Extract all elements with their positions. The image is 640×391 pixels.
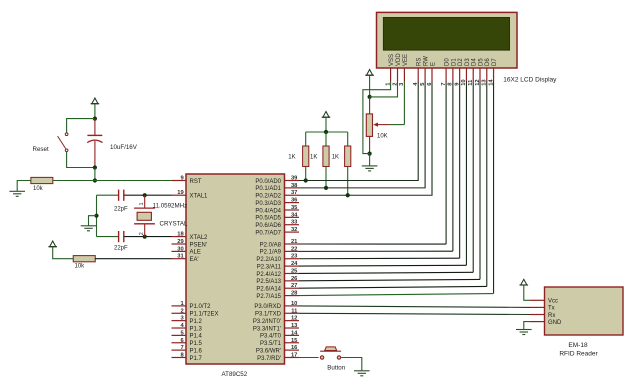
svg-text:P0.3/AD3: P0.3/AD3 [255, 201, 281, 207]
svg-text:P3.0/RXD: P3.0/RXD [254, 304, 281, 310]
power symbol VCC (EA) [48, 241, 57, 247]
wire VCC to pot node [369, 76, 371, 97]
svg-text:15: 15 [291, 338, 298, 344]
wire R2 to P0.0 row [305, 167, 307, 181]
svg-text:35: 35 [291, 205, 298, 211]
junction pot bottom node [368, 152, 372, 156]
svg-text:P2.5/A13: P2.5/A13 [256, 279, 281, 285]
svg-text:P1.1/T2EX: P1.1/T2EX [190, 312, 219, 318]
capacitor C1 22pF [119, 190, 124, 201]
U1 right pin P3.3/INT1' (pin 13) stub [285, 327, 300, 329]
svg-text:10K: 10K [377, 133, 388, 139]
resistor R2 1K [303, 146, 309, 167]
svg-text:RST: RST [190, 179, 202, 185]
svg-text:P3.5/T1: P3.5/T1 [260, 341, 282, 347]
U1 left pin EA' (pin 31) stub [172, 258, 187, 260]
wire LCD D3 vertical [465, 81, 467, 265]
wire R3 to P0.1 row [325, 167, 327, 188]
junction RST node [93, 178, 97, 182]
wire ground to R1 [17, 181, 31, 192]
svg-text:P2.2/A10: P2.2/A10 [256, 257, 281, 263]
svg-text:PSEN': PSEN' [190, 242, 207, 248]
svg-text:22pF: 22pF [114, 207, 128, 213]
wire cap bottom to RST row [94, 168, 96, 181]
wire LCD RW to P0.1 [299, 81, 425, 188]
svg-text:39: 39 [291, 176, 298, 182]
svg-text:16X2 LCD Display: 16X2 LCD Display [503, 77, 557, 84]
svg-text:12: 12 [291, 316, 297, 322]
wire C2 to XTAL2 pin [124, 236, 171, 238]
svg-text:GND: GND [548, 320, 562, 326]
svg-text:Tx: Tx [548, 306, 555, 312]
LCD display LCD1 body [377, 12, 518, 68]
svg-text:P0.4/AD4: P0.4/AD4 [255, 208, 281, 214]
wire LCD E to P0.2 [299, 81, 432, 195]
svg-text:P0.0/AD0: P0.0/AD0 [255, 179, 281, 185]
wire LCD VDD to VCC node [370, 81, 398, 97]
svg-text:VSS: VSS [389, 54, 395, 66]
svg-text:VEE: VEE [403, 54, 409, 66]
wire VCC to reset node [94, 104, 96, 119]
LCD1 pin 7 (D0) stub [445, 68, 447, 81]
wire switch bottom to cap bottom node [67, 152, 95, 168]
svg-text:24: 24 [291, 261, 298, 267]
svg-text:D2: D2 [458, 58, 464, 66]
wire LCD D0 vertical [445, 81, 447, 244]
junction reset top node [93, 117, 97, 121]
svg-text:RW: RW [424, 56, 430, 66]
wire LCD VEE to pot wiper [403, 81, 405, 125]
wire P3.0/RXD to EM-18 Tx [299, 306, 530, 308]
wire P3.7 to button [299, 356, 319, 358]
wire LCD D6 to P2.6 [299, 286, 487, 288]
svg-text:D3: D3 [465, 58, 471, 66]
svg-text:EM-18: EM-18 [568, 342, 588, 349]
svg-text:P2.0/A8: P2.0/A8 [260, 242, 282, 248]
svg-text:1: 1 [139, 203, 145, 206]
svg-text:29: 29 [177, 239, 184, 245]
svg-text:37: 37 [291, 190, 297, 196]
svg-text:P1.2: P1.2 [190, 319, 203, 325]
wire reset node to switch top [67, 119, 95, 133]
U1 right pin P2.1/A9 (pin 22) stub [285, 250, 300, 252]
U1 left pin P1.0/T2 (pin 1) stub [172, 305, 187, 307]
resistor R1 10k (reset pulldown) [31, 177, 53, 183]
svg-text:P3.3/INT1': P3.3/INT1' [253, 326, 281, 332]
svg-text:10k: 10k [33, 186, 44, 192]
svg-text:14: 14 [291, 330, 298, 336]
svg-text:D6: D6 [485, 58, 491, 66]
svg-text:D1: D1 [451, 58, 457, 66]
svg-text:VDD: VDD [396, 53, 402, 66]
svg-text:18: 18 [177, 232, 184, 238]
U2 pin Rx stub [530, 314, 545, 316]
svg-text:28: 28 [291, 291, 298, 297]
svg-text:P3.7/RD': P3.7/RD' [257, 356, 281, 362]
ground (reset) [9, 191, 25, 196]
LCD1 pin 14 (D7) stub [493, 68, 495, 81]
U1 right pin P2.0/A8 (pin 21) stub [285, 243, 300, 245]
LCD1 pin 11 (D4) stub [472, 68, 474, 81]
svg-text:P3.1/TXD: P3.1/TXD [255, 312, 282, 318]
svg-text:32: 32 [291, 227, 297, 233]
ground (crystal) [81, 226, 97, 231]
LCD1 screen [383, 18, 509, 51]
U2 pin GND stub [530, 321, 545, 323]
LCD1 pin 6 (E) stub [431, 68, 433, 81]
svg-text:XTAL2: XTAL2 [190, 235, 209, 241]
U1 right pin P3.4/T0 (pin 14) stub [285, 334, 300, 336]
LCD1 pin 2 (VDD) stub [397, 68, 399, 81]
wire pullup rail [306, 131, 348, 133]
svg-text:Rx: Rx [548, 313, 555, 319]
svg-text:26: 26 [291, 276, 298, 282]
svg-text:Button: Button [327, 364, 345, 371]
junction crystal pin2 node [143, 235, 147, 239]
svg-text:38: 38 [291, 183, 298, 189]
capacitor C2 22pF [119, 231, 124, 242]
wire VCC to R5 [53, 247, 74, 259]
svg-text:P0.7/AD7: P0.7/AD7 [255, 230, 281, 236]
U1 right pin P3.6/WR' (pin 16) stub [285, 349, 300, 351]
wire pot wiper to VEE [389, 124, 404, 126]
U1 right pin P3.5/T1 (pin 15) stub [285, 342, 300, 344]
svg-text:EA': EA' [190, 257, 199, 263]
svg-text:33: 33 [291, 220, 298, 226]
LCD1 pin 3 (VEE) stub [403, 68, 405, 81]
junction VDD node [368, 95, 372, 99]
U1 left pin P1.3 (pin 4) stub [172, 327, 187, 329]
microcontroller U1 AT89C52 body [186, 174, 285, 364]
U1 left pin P1.6 (pin 7) stub [172, 349, 187, 351]
wire pot bottom to ground [369, 154, 371, 166]
svg-text:1K: 1K [288, 154, 295, 160]
U1 right pin P0.1/AD1 (pin 38) stub [285, 187, 300, 189]
svg-text:Vcc: Vcc [548, 299, 558, 305]
button SW1 [320, 347, 341, 359]
U1 right pin P2.7/A15 (pin 28) stub [285, 295, 300, 297]
svg-text:P0.5/AD5: P0.5/AD5 [255, 216, 281, 222]
wire LCD RS to P0.0 [299, 81, 418, 181]
wire XTAL2 row left segment [97, 236, 119, 238]
svg-text:31: 31 [177, 254, 184, 260]
ground (pot) [362, 166, 378, 171]
wire button to ground [341, 357, 362, 370]
svg-text:1K: 1K [332, 154, 339, 160]
junction pullup rail center [324, 130, 328, 134]
wire VCC to pullup rail [325, 118, 327, 133]
U1 left pin XTAL2 (pin 18) stub [172, 236, 187, 238]
svg-text:XTAL1: XTAL1 [190, 194, 209, 200]
U1 right pin P2.5/A13 (pin 26) stub [285, 280, 300, 282]
U1 left pin RST (pin 9) stub [172, 180, 187, 182]
svg-text:D5: D5 [478, 58, 484, 66]
svg-text:CRYSTAL: CRYSTAL [160, 220, 189, 227]
svg-text:P3.2/INT0': P3.2/INT0' [253, 319, 281, 325]
junction crystal pin1 node [143, 193, 147, 197]
RFID reader U2 EM-18 body [545, 287, 624, 335]
U1 left pin ALE (pin 30) stub [172, 250, 187, 252]
U1 right pin P0.0/AD0 (pin 39) stub [285, 180, 300, 182]
svg-text:P2.3/A11: P2.3/A11 [257, 264, 282, 270]
svg-text:2: 2 [139, 232, 145, 235]
U1 right pin P0.3/AD3 (pin 36) stub [285, 202, 300, 204]
svg-text:27: 27 [291, 283, 297, 289]
svg-text:P0.1/AD1: P0.1/AD1 [255, 186, 281, 192]
svg-text:P1.4: P1.4 [190, 334, 203, 340]
U1 right pin P2.3/A11 (pin 24) stub [285, 265, 300, 267]
capacitor C3 10uF/16V [87, 119, 102, 168]
U1 right pin P3.2/INT0' (pin 12) stub [285, 320, 300, 322]
U1 right pin P0.7/AD7 (pin 32) stub [285, 231, 300, 233]
wire LCD D7 vertical [493, 81, 495, 294]
svg-text:11.0592MHz: 11.0592MHz [153, 203, 188, 210]
resistor R4 1K [345, 146, 351, 167]
U2 pin Tx stub [530, 306, 545, 308]
U1 right pin P2.6/A14 (pin 27) stub [285, 287, 300, 289]
svg-text:P3.4/T0: P3.4/T0 [260, 334, 282, 340]
U1 right pin P0.2/AD2 (pin 37) stub [285, 194, 300, 196]
U1 left pin P1.5 (pin 6) stub [172, 342, 187, 344]
U2 pin Vcc stub [530, 299, 545, 301]
svg-text:7: 7 [180, 345, 183, 351]
svg-text:P2.6/A14: P2.6/A14 [256, 287, 281, 293]
svg-text:19: 19 [177, 190, 184, 196]
svg-text:P1.0/T2: P1.0/T2 [190, 304, 212, 310]
wire LCD D5 vertical [479, 81, 481, 279]
U1 left pin PSEN' (pin 29) stub [172, 243, 187, 245]
power symbol VCC (P0 pullups) [322, 112, 331, 118]
svg-text:22pF: 22pF [114, 246, 128, 252]
U1 right pin P3.7/RD' (pin 17) stub [285, 356, 300, 358]
svg-text:22: 22 [291, 246, 297, 252]
junction R4 at P0.2 [346, 193, 350, 197]
svg-text:P0.6/AD6: P0.6/AD6 [255, 223, 281, 229]
wire EM-18 GND to ground [524, 322, 530, 330]
svg-text:10: 10 [291, 301, 297, 307]
svg-text:21: 21 [291, 239, 298, 245]
svg-text:10k: 10k [75, 264, 86, 270]
U1 right pin P3.0/RXD (pin 10) stub [285, 305, 300, 307]
ground (EM-18) [516, 330, 532, 335]
svg-text:ALE: ALE [190, 250, 201, 256]
wire LCD D6 vertical [486, 81, 488, 286]
svg-text:AT89C52: AT89C52 [222, 371, 248, 378]
svg-text:P1.5: P1.5 [190, 341, 203, 347]
power symbol VCC (EM-18) [520, 279, 529, 285]
wire rail to R2 [305, 132, 307, 146]
wire LCD D0 to P2.0 [299, 243, 446, 245]
LCD1 pin 8 (D1) stub [452, 68, 454, 81]
svg-text:P1.6: P1.6 [190, 348, 203, 354]
wire LCD D4 vertical [472, 81, 474, 272]
LCD1 pin 5 (RW) stub [424, 68, 426, 81]
svg-text:D0: D0 [445, 58, 451, 66]
svg-text:17: 17 [291, 352, 297, 358]
wire LCD VSS to ground node [363, 81, 391, 154]
svg-text:1K: 1K [310, 154, 317, 160]
LCD1 pin 4 (RS) stub [417, 68, 419, 81]
svg-text:10uF/16V: 10uF/16V [110, 144, 138, 151]
U1 right pin P0.6/AD6 (pin 33) stub [285, 224, 300, 226]
power symbol VCC (reset) [91, 98, 100, 104]
power symbol VCC (pot) [365, 70, 374, 76]
wire LCD D3 to P2.3 [299, 264, 466, 267]
LCD1 pin 9 (D2) stub [459, 68, 461, 81]
svg-text:P3.6/WR': P3.6/WR' [256, 348, 281, 354]
U1 left pin P1.2 (pin 3) stub [172, 320, 187, 322]
wire R4 to P0.2 row [347, 167, 349, 196]
wire LCD D7 to P2.7 [299, 294, 494, 296]
wire R5 to EA pin [95, 258, 172, 260]
wire LCD D4 to P2.4 [299, 272, 473, 273]
svg-text:P2.7/A15: P2.7/A15 [256, 294, 281, 300]
U1 right pin P3.1/TXD (pin 11) stub [285, 312, 300, 314]
U1 right pin P0.4/AD4 (pin 35) stub [285, 209, 300, 211]
svg-text:34: 34 [291, 212, 298, 218]
svg-text:D7: D7 [492, 58, 498, 66]
wire to crystal ground [89, 216, 97, 226]
svg-text:P0.2/AD2: P0.2/AD2 [255, 194, 281, 200]
wire rail to R3 [325, 132, 327, 146]
crystal X1 11.0592MHz [134, 195, 155, 236]
wire LCD D1 to P2.1 [299, 250, 453, 252]
ground (button) [354, 371, 370, 376]
svg-text:E: E [430, 62, 436, 66]
resistor R5 10k (EA) [73, 256, 95, 262]
wire LCD D2 vertical [459, 81, 461, 258]
U1 left pin P1.1/T2EX (pin 2) stub [172, 312, 187, 314]
U1 left pin P1.7 (pin 8) stub [172, 356, 187, 358]
wire LCD D2 to P2.2 [299, 257, 460, 260]
svg-text:P1.7: P1.7 [190, 356, 203, 362]
wire rail to R4 [347, 132, 349, 146]
pot RV1 10K [366, 97, 389, 154]
U1 left pin XTAL1 (pin 19) stub [172, 194, 187, 196]
svg-text:2: 2 [180, 308, 183, 314]
LCD1 pin 12 (D5) stub [479, 68, 481, 81]
svg-text:D4: D4 [472, 58, 478, 66]
wire LCD D5 to P2.5 [299, 279, 480, 280]
resistor R3 1K [323, 146, 329, 167]
junction crystal ground tap [94, 214, 98, 218]
switch SW-Reset terminal circles and lever [58, 133, 68, 152]
svg-text:P2.1/A9: P2.1/A9 [260, 250, 282, 256]
junction R3 at P0.1 [324, 186, 328, 190]
LCD1 pin 10 (D3) stub [465, 68, 467, 81]
junction R2 at P0.0 [304, 178, 308, 182]
svg-text:16: 16 [291, 345, 298, 351]
svg-text:RS: RS [417, 58, 423, 66]
svg-text:30: 30 [177, 246, 183, 252]
svg-text:P2.4/A12: P2.4/A12 [256, 272, 281, 278]
wire LCD D1 vertical [452, 81, 454, 251]
LCD1 pin 1 (VSS) stub [390, 68, 392, 81]
svg-text:13: 13 [291, 323, 298, 329]
svg-text:25: 25 [291, 268, 298, 274]
U1 right pin P2.2/A10 (pin 23) stub [285, 258, 300, 260]
wire C1 to XTAL1 pin [124, 194, 171, 196]
LCD1 pin 13 (D6) stub [486, 68, 488, 81]
U1 left pin P1.4 (pin 5) stub [172, 334, 187, 336]
wire XTAL1 row left segment [97, 194, 119, 196]
junction cap bottom [93, 165, 97, 169]
svg-text:36: 36 [291, 198, 298, 204]
U1 right pin P2.4/A12 (pin 25) stub [285, 272, 300, 274]
svg-text:23: 23 [291, 254, 298, 260]
svg-text:RFID Reader: RFID Reader [559, 351, 598, 358]
U1 right pin P0.5/AD5 (pin 34) stub [285, 216, 300, 218]
wire joining C1 C2 left plates [96, 195, 98, 236]
wire R1 to RST pin [53, 180, 172, 182]
svg-text:P1.3: P1.3 [190, 326, 203, 332]
wire VCC to EM-18 Vcc [524, 285, 530, 300]
svg-text:11: 11 [291, 308, 298, 314]
svg-text:Reset: Reset [33, 146, 49, 153]
wire P3.1/TXD to EM-18 Rx [299, 313, 530, 314]
